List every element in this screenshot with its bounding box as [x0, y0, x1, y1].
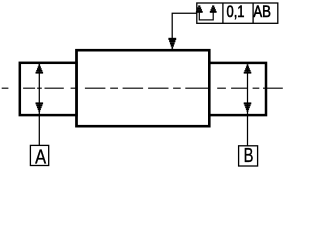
svg-text:AB: AB [253, 3, 271, 21]
total runout symbol [196, 5, 217, 20]
shaft body large cylinder [77, 50, 210, 126]
symbol left arrowhead [198, 5, 200, 7]
datum box B [239, 146, 258, 166]
svg-text:A: A [35, 147, 47, 167]
arrowhead down right [244, 102, 252, 112]
arrowhead up left [36, 65, 44, 74]
leader arrowhead down [168, 38, 176, 49]
symbol left arrow stem [198, 12, 200, 21]
shaft right journal [209, 63, 266, 115]
arrowhead down left [36, 102, 44, 112]
feature control frame [197, 3, 278, 23]
dimension line right journal [247, 64, 249, 146]
leader from frame [172, 13, 197, 41]
dimension line left journal [38, 64, 40, 146]
arrowhead up right [244, 65, 252, 74]
svg-text:B: B [244, 145, 254, 167]
frame divider 1 [222, 3, 224, 23]
svg-text:0,1: 0,1 [227, 3, 245, 21]
symbol right arrow stem [212, 12, 214, 21]
symbol right arrowhead [212, 5, 214, 7]
shaft left journal [20, 63, 77, 115]
symbol bottom bar [199, 19, 213, 21]
datum box A [30, 145, 48, 165]
centerline [2, 87, 283, 89]
big cylinder outline redraw [77, 50, 210, 126]
frame divider 2 [252, 3, 254, 23]
